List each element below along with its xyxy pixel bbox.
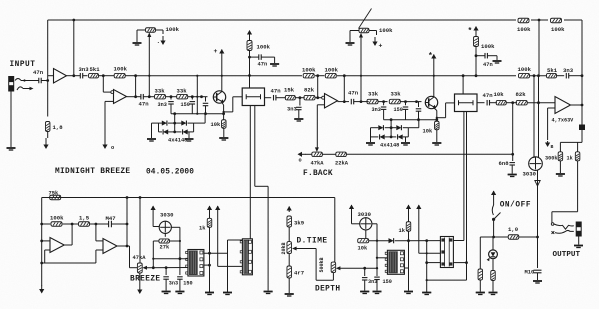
wire ic1 feed1	[153, 258, 188, 260]
op-amp U2a lfo	[50, 238, 64, 253]
node tB1	[191, 95, 194, 98]
wire breeze pot bottom	[139, 273, 141, 284]
node right fb	[581, 74, 584, 77]
svg-text:33k: 33k	[177, 88, 188, 95]
switch SW2a	[551, 223, 554, 226]
resistor 1,0	[508, 235, 519, 240]
arrow up 3030-1	[152, 205, 154, 208]
resistor 1k out	[577, 142, 579, 151]
node lfo a	[40, 223, 43, 226]
svg-text:100k: 100k	[551, 26, 565, 33]
node 47n-33k	[148, 95, 151, 98]
svg-text:1k: 1k	[399, 228, 406, 234]
ground 3n3 st3	[294, 118, 303, 120]
svg-text:100k: 100k	[50, 215, 64, 222]
resistor 100k box2 supply	[474, 37, 479, 47]
wire rail drop mid1	[196, 76, 198, 114]
wire ic3 col	[426, 241, 428, 292]
IC U5	[242, 239, 252, 275]
svg-text:3030: 3030	[523, 171, 537, 178]
svg-text:100k: 100k	[166, 26, 180, 33]
ground 227	[223, 292, 232, 294]
node rail-539	[538, 19, 541, 22]
arrow up lfo s1	[209, 205, 211, 208]
svg-text:+: +	[379, 43, 383, 50]
resistor 82k st3	[304, 95, 315, 100]
wire box1 out	[265, 97, 272, 99]
wire op3 out	[338, 101, 350, 103]
capacitor 150 t1	[191, 97, 193, 100]
diode D2	[181, 121, 186, 126]
ground 6n8	[508, 174, 517, 176]
op-amp U1d	[555, 97, 571, 114]
svg-text:5k1: 5k1	[90, 66, 101, 73]
IC U4	[188, 250, 204, 277]
arrow down T2 supply	[374, 37, 376, 45]
capacitor 150 lfo	[179, 259, 181, 275]
capacitor 6n8	[512, 155, 514, 161]
op-amp U1a	[54, 69, 67, 84]
node fb3 mid	[316, 74, 319, 77]
wire clock2b	[466, 112, 468, 281]
resistor 82k out	[516, 100, 527, 105]
svg-text:F.BACK: F.BACK	[303, 170, 333, 178]
trimmer 100k T1	[146, 28, 156, 33]
ground dnet1 mid	[185, 138, 194, 140]
resistor 22kA fback	[336, 152, 347, 157]
resistor 10k lfo2	[365, 230, 367, 239]
ground 300k	[556, 173, 565, 175]
wire clock1a	[249, 106, 251, 239]
diode D7	[380, 134, 385, 139]
svg-text:47n: 47n	[483, 92, 494, 99]
wire diode out	[395, 240, 440, 242]
wire lfo left vert	[41, 198, 43, 287]
wire op4 out	[571, 104, 583, 106]
capacitor 3n3 t2	[383, 102, 385, 106]
node 15k-82k	[299, 96, 302, 99]
wire T1 right	[156, 29, 164, 31]
resistor 3k9	[287, 216, 292, 227]
node op2 out	[134, 95, 137, 98]
wire diode row	[369, 240, 389, 242]
op-amp U1c	[325, 94, 338, 109]
svg-text:3030: 3030	[358, 211, 372, 218]
arrow up dtime	[288, 206, 290, 209]
svg-text:o: o	[111, 145, 114, 151]
wire breeze pot drop	[139, 198, 141, 264]
pot BREEZE 47kA	[137, 263, 142, 273]
node sig-538	[537, 101, 540, 104]
wire op4 out down	[581, 105, 583, 142]
svg-text:1,0: 1,0	[508, 226, 519, 233]
trimmer 100k T2	[359, 28, 369, 33]
capacitor M47	[108, 221, 110, 228]
wire op2 minus	[102, 76, 104, 92]
svg-text:300k: 300k	[545, 156, 557, 162]
node base1	[200, 95, 203, 98]
node 47n-33k 2	[360, 100, 363, 103]
wire 227 riser	[227, 240, 229, 292]
resistor 100k box1 supply	[247, 41, 252, 51]
wire fb3 mid drop	[317, 76, 319, 98]
arrow down breeze	[139, 284, 141, 293]
svg-text:10k: 10k	[211, 122, 221, 128]
wire op1 out	[67, 75, 81, 77]
diode D3	[163, 129, 168, 134]
svg-text:100k: 100k	[518, 66, 532, 73]
ground 1k lfo2	[404, 291, 413, 293]
resistor 1k lfo2	[406, 222, 411, 232]
svg-text:33k: 33k	[368, 91, 379, 98]
arrow up lfo s3	[408, 204, 410, 207]
resistor 5k1 stage1	[89, 73, 99, 78]
node lfo c	[95, 223, 98, 226]
wire op6 minus	[95, 224, 97, 241]
wire Q1 emitter	[222, 102, 224, 105]
svg-text:15k: 15k	[284, 87, 295, 94]
wire jack sleeve to ground	[10, 91, 12, 147]
capacitor 47n after box1	[273, 95, 275, 101]
resistor 100k top-right A	[518, 18, 529, 23]
box U3 cell2	[455, 94, 478, 112]
resistor 300k	[559, 142, 561, 151]
wire dnet2 right	[408, 127, 419, 129]
wire 3030-1 right	[171, 226, 180, 228]
capacitor 47n series1	[140, 94, 142, 100]
svg-text:3n3: 3n3	[372, 107, 381, 113]
resistor 100k stage1	[103, 75, 114, 77]
arrow down 1,8 supply	[45, 138, 47, 148]
capacitor M10	[534, 269, 542, 271]
svg-text:150: 150	[181, 102, 190, 108]
svg-text:10k: 10k	[423, 129, 433, 135]
svg-text:3n3: 3n3	[79, 66, 90, 73]
wire twin-T bottom 2	[384, 119, 437, 121]
diode D4	[183, 129, 188, 134]
wire op1 minus stub	[48, 75, 54, 77]
wire ic1 right1	[204, 252, 228, 254]
wire op5 out	[64, 244, 72, 246]
IC U7	[440, 237, 453, 268]
wire dnet1 left gnd	[152, 122, 159, 124]
svg-text:1k: 1k	[199, 226, 206, 232]
svg-text:04.05.2000: 04.05.2000	[146, 169, 194, 177]
node tA2	[382, 100, 385, 103]
ground 10k Q1	[219, 137, 228, 139]
capacitor 3n3 right	[565, 73, 567, 79]
wire op5 minus	[42, 240, 50, 242]
ground output jack	[574, 245, 583, 247]
wire dnet2 left gnd	[370, 128, 372, 142]
wire depth wiper line	[340, 267, 377, 269]
svg-text:*: *	[428, 52, 433, 61]
node tB2	[404, 100, 407, 103]
svg-text:82k: 82k	[304, 87, 315, 94]
ground dnet2 left	[366, 142, 375, 144]
capacitor 47n series2	[350, 99, 352, 105]
wire op2 feedback	[135, 76, 137, 97]
ground lfo caps A	[162, 291, 171, 293]
resistor 10k Q1	[222, 120, 227, 129]
node 5k1-100k	[102, 74, 105, 77]
switch SW1	[492, 218, 495, 221]
ground dnet1 left	[147, 138, 156, 140]
diode D9	[389, 238, 394, 243]
svg-text:DEPTH: DEPTH	[315, 286, 340, 294]
wire top rail	[48, 19, 516, 21]
wire op2 plus	[105, 100, 114, 102]
svg-text:47n: 47n	[258, 62, 268, 68]
wire jack out gnd	[578, 236, 580, 245]
wire fb3 out drop	[343, 76, 345, 102]
resistor 15k	[284, 97, 287, 99]
wire clock1b	[254, 106, 256, 187]
svg-text:22kA: 22kA	[335, 161, 349, 167]
svg-text:INPUT: INPUT	[10, 61, 36, 69]
svg-text:100k: 100k	[114, 66, 128, 73]
node op1 minus	[46, 79, 49, 82]
resistor 1,5 lfo	[79, 222, 90, 227]
resistor 27k	[164, 233, 166, 236]
arrow down 3030	[535, 181, 540, 187]
svg-text:100k: 100k	[325, 67, 339, 74]
svg-text:47kA: 47kA	[133, 255, 147, 261]
wire op3 plus	[317, 104, 324, 106]
resistor 10k Q2	[435, 121, 440, 130]
op-amp U2b lfo	[103, 239, 117, 254]
ground 47n box2	[493, 60, 502, 62]
jack input	[9, 77, 14, 92]
wire op2 out	[127, 96, 141, 98]
wire T2 wiper	[360, 37, 362, 102]
node base2	[415, 100, 418, 103]
transistor Q1	[213, 91, 225, 103]
svg-text:82k: 82k	[516, 91, 527, 98]
wire twin-T bottom 1	[171, 113, 224, 115]
node op4 out	[581, 104, 584, 107]
ground T1	[133, 42, 142, 44]
svg-text:100k: 100k	[481, 43, 495, 50]
svg-text:150: 150	[183, 281, 192, 287]
svg-text:10k: 10k	[358, 246, 368, 252]
wire op6 plus	[95, 250, 97, 263]
node fb3 out	[343, 74, 346, 77]
capacitor base1	[205, 97, 207, 102]
wire lfo rail down	[334, 198, 336, 263]
svg-text:100k: 100k	[302, 67, 316, 74]
resistor 10k out	[496, 100, 506, 105]
wire s2 to ic2	[218, 265, 243, 267]
diode D1	[162, 121, 167, 126]
wire ic3 right gnd	[404, 267, 408, 269]
node dnet2 mid	[390, 126, 393, 129]
node dnet1 mid	[173, 122, 176, 125]
resistor 100k fb3a	[303, 73, 314, 78]
wire out jog	[552, 211, 578, 213]
svg-text:150: 150	[383, 279, 392, 285]
svg-text:100k: 100k	[517, 26, 531, 33]
transistor Q2	[425, 96, 437, 108]
wire breeze wiper line	[147, 267, 188, 269]
transistor 3030-2	[360, 218, 372, 230]
wire 538.5 drop	[538, 76, 540, 158]
jack output	[576, 222, 581, 236]
svg-text:33k: 33k	[155, 88, 166, 95]
svg-text:1,5: 1,5	[79, 215, 90, 222]
ground clock1b	[264, 291, 273, 293]
arrow up lfo s4	[418, 204, 420, 207]
svg-text:MIDNIGHT BREEZE: MIDNIGHT BREEZE	[55, 168, 130, 176]
wire op5 plus	[45, 249, 50, 251]
wire T1 wiper	[148, 36, 150, 97]
node emitter2	[435, 118, 438, 121]
arrow up Q2 supply	[433, 54, 435, 57]
wire vb supply row	[560, 141, 582, 143]
node lfo b	[71, 223, 74, 226]
wire box2 out	[477, 102, 485, 104]
supply arrow box1	[249, 30, 251, 33]
ground r2	[476, 292, 485, 294]
wire jack tip hook	[15, 79, 21, 81]
ground 47n box1	[270, 63, 279, 65]
svg-text:3n3: 3n3	[158, 102, 167, 108]
wire s4 to ic4	[419, 252, 440, 254]
ground T2	[346, 42, 355, 44]
wire Q2 emitter	[434, 108, 437, 111]
wire ic1 right2	[204, 264, 210, 266]
resistor 33k B2	[389, 99, 400, 104]
arrow left F.BACK	[299, 153, 306, 155]
svg-text:47n: 47n	[271, 88, 282, 95]
svg-text:M10: M10	[525, 270, 535, 276]
svg-text:33k: 33k	[391, 91, 402, 98]
op-amp U1b	[114, 90, 127, 104]
resistor led	[491, 271, 496, 281]
capacitor 150 t2	[405, 102, 407, 106]
node op1 out	[72, 74, 75, 77]
wire op1 out feedback drop	[73, 20, 75, 76]
svg-text:3k9: 3k9	[294, 220, 305, 227]
svg-text:OUTPUT: OUTPUT	[553, 251, 581, 259]
svg-text:M47: M47	[106, 215, 116, 222]
svg-text:47n: 47n	[33, 69, 44, 76]
wire dnet2 rows	[371, 127, 379, 129]
wire 3030 down	[537, 170, 539, 268]
svg-text:BREEZE: BREEZE	[130, 276, 160, 284]
resistor 1,8	[45, 122, 50, 132]
ground 10k Q2	[432, 142, 441, 144]
svg-text:100k: 100k	[257, 44, 271, 51]
capacitor 4,7uF	[579, 125, 585, 131]
wire lfo rail	[42, 197, 335, 199]
wire box1 supply	[249, 51, 251, 89]
wire 534 drop	[533, 76, 535, 158]
wire dnet1 rows	[159, 122, 163, 124]
node emitter1	[222, 112, 225, 115]
wire 539 drop	[538, 20, 540, 76]
svg-text:4r7: 4r7	[294, 270, 304, 277]
label VB arrow	[547, 141, 549, 146]
ground ic3 col	[422, 292, 431, 294]
wire rail right drop	[581, 20, 583, 106]
wire op4 plus	[548, 107, 555, 109]
wire op6 out	[117, 245, 130, 247]
svg-text:.: .	[157, 38, 161, 45]
ground input jack	[7, 147, 16, 149]
svg-text:47n: 47n	[348, 90, 359, 97]
transistor 3030 switch	[529, 157, 543, 171]
wire clock2a	[463, 112, 465, 241]
node op3 out	[343, 100, 346, 103]
wire emitter1 to box	[224, 111, 233, 113]
LED D10	[489, 250, 498, 259]
resistor 33k A1	[149, 96, 154, 98]
wire op6 out to pot	[129, 246, 131, 268]
wire op1 plus bias	[47, 81, 49, 117]
svg-text:47n: 47n	[483, 62, 493, 68]
wire out row	[480, 236, 508, 238]
capacitor 47n box1	[250, 56, 259, 58]
svg-text:+: +	[214, 48, 218, 55]
wire Q1 collector up	[221, 53, 223, 91]
resistor 100k fb3b	[325, 73, 336, 78]
wire led down	[492, 259, 494, 270]
svg-text:150: 150	[394, 107, 403, 113]
capacitor 47n input	[36, 80, 39, 82]
resistor 4r7	[288, 254, 290, 266]
wire lfo bottom	[42, 262, 96, 264]
wire T2 right	[369, 30, 377, 32]
capacitor base2	[418, 102, 420, 107]
svg-text:*: *	[468, 27, 473, 36]
resistor 33k A2	[367, 99, 378, 104]
wire rail to box2	[462, 76, 464, 94]
arrow up Q1 supply	[221, 49, 223, 52]
box U2 cell1	[242, 88, 264, 106]
wire dnet1 gnd2 stub	[188, 132, 190, 138]
supply arrow box2	[475, 26, 477, 29]
wire r2 col	[479, 237, 481, 269]
wire jack switch hook	[17, 87, 23, 90]
wire op6 out up	[126, 198, 128, 247]
ground lfo2 A	[360, 291, 369, 293]
capacitor 3n3 st3	[299, 98, 301, 106]
wire ic4 left low	[427, 262, 440, 264]
svg-text:20kB: 20kB	[281, 242, 287, 254]
wire sw1 down	[493, 221, 495, 237]
node 100k out	[134, 74, 137, 77]
wire T2 left	[350, 30, 359, 32]
svg-text:47kA: 47kA	[311, 161, 325, 167]
svg-text:3n3: 3n3	[169, 281, 178, 287]
resistor 100k lfo	[42, 223, 51, 225]
wire box2 supply	[475, 47, 477, 76]
IC U6	[387, 250, 404, 274]
ground lfo2 B	[373, 291, 382, 293]
capacitor 3n3 lfo	[165, 268, 167, 275]
wire fb node drop	[512, 103, 514, 155]
resistor 1k lfo	[207, 218, 212, 227]
svg-text:B: B	[551, 144, 554, 150]
diode D6	[396, 125, 401, 130]
arrow up lfo s2	[217, 205, 219, 208]
diode D5	[378, 125, 383, 130]
node 82k out	[316, 96, 319, 99]
diode D8	[398, 134, 403, 139]
svg-text:1,8: 1,8	[53, 124, 64, 131]
switch SW2b	[552, 231, 555, 234]
